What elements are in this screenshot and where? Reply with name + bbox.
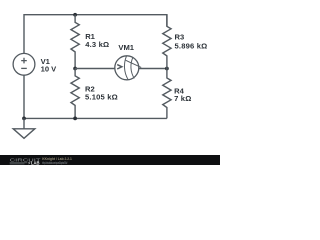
- resistor R3: [163, 15, 171, 69]
- resistor R2: [71, 69, 79, 119]
- wire top rail left: V1 top to node A: [24, 15, 75, 54]
- svg-text:VM1: VM1: [118, 43, 134, 52]
- node D junction dot at ground: [22, 117, 26, 121]
- voltage source V1 plus sign: [21, 58, 27, 64]
- svg-text:10 V: 10 V: [41, 64, 58, 73]
- node C junction dot at R3 bottom / R4 top: [165, 67, 169, 71]
- voltmeter VM1 meter arc 1: [124, 56, 128, 79]
- node A junction dot at R1 top: [73, 13, 77, 17]
- node E junction dot at R2 bottom: [73, 117, 77, 121]
- svg-text:R3: R3: [175, 33, 185, 42]
- wire node B to VM1 left terminal: [75, 68, 115, 70]
- svg-text:http://circuitlab.com/cpar52qa: http://circuitlab.com/cpar52qahw75d/: [42, 161, 67, 165]
- wire top rail right: node A to R3 top: [75, 15, 167, 27]
- voltmeter VM1 arrow glyph: [117, 65, 122, 69]
- voltage source V1 minus sign: [21, 67, 27, 69]
- voltage source V1 body circle: [13, 53, 35, 75]
- node B junction dot at R1 bottom / VM1 left: [73, 67, 77, 71]
- voltmeter VM1 meter arc 2: [131, 58, 134, 79]
- svg-text:5.896 kΩ: 5.896 kΩ: [175, 42, 208, 51]
- voltmeter VM1 needle: [126, 60, 142, 67]
- svg-text:4.3 kΩ: 4.3 kΩ: [85, 40, 109, 49]
- svg-text:5.105 kΩ: 5.105 kΩ: [85, 93, 118, 102]
- svg-text:LAB: LAB: [31, 161, 40, 165]
- resistor R1: [71, 15, 79, 69]
- resistor R4: [163, 69, 171, 119]
- wire VM1 right terminal to node C: [139, 68, 167, 70]
- ground symbol: [13, 118, 35, 138]
- voltmeter VM1 body circle: [115, 56, 139, 80]
- wire bottom rail: ground node to R4 bottom: [24, 117, 167, 119]
- footer black bar: [0, 155, 220, 165]
- CircuitLab logo bolt glyph: [28, 161, 31, 164]
- wire V1 bottom to ground node: [23, 75, 25, 118]
- svg-text:7 kΩ: 7 kΩ: [174, 94, 191, 103]
- CircuitLab logo underline strokes: [10, 163, 28, 164]
